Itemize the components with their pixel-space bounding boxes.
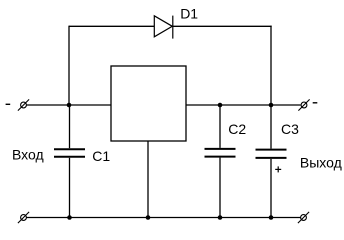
regulator box xyxy=(111,66,186,141)
wire: top rail right segment xyxy=(173,25,272,27)
wire: C1 bottom lead xyxy=(69,158,71,218)
junction: C3 / bottom rail xyxy=(269,215,274,220)
svg-text:C3: C3 xyxy=(281,121,299,137)
label plus of C3 xyxy=(275,166,281,172)
diode D1 xyxy=(154,16,173,39)
wire: right vertical from top rail to middle rail xyxy=(270,26,272,105)
wire: C3 bottom lead xyxy=(270,159,272,218)
svg-text:C2: C2 xyxy=(228,121,246,137)
terminal: input minus (left middle) xyxy=(18,99,29,110)
capacitor C1 xyxy=(54,149,85,157)
wire: regulator bottom pin xyxy=(147,141,149,218)
junction: left vertical / middle rail xyxy=(67,103,72,108)
wire: C1 top lead xyxy=(69,105,71,148)
label minus at output xyxy=(313,102,318,104)
wire: C2 top lead xyxy=(219,105,221,148)
capacitor C2 xyxy=(205,149,236,157)
terminal: input common (left bottom) xyxy=(18,212,29,223)
terminal: output minus (right middle) xyxy=(298,99,309,110)
wire: C2 bottom lead xyxy=(219,158,221,218)
junction: regulator pin / bottom rail xyxy=(146,215,151,220)
junction: right vertical / middle rail xyxy=(269,103,274,108)
svg-text:C1: C1 xyxy=(92,148,110,164)
junction: C2 / middle rail xyxy=(218,103,223,108)
terminal: output common (right bottom) xyxy=(298,212,309,223)
junction: C2 / bottom rail xyxy=(218,215,223,220)
wire: C3 top lead xyxy=(270,105,272,149)
wire: bottom rail xyxy=(26,217,300,219)
wire: top rail left segment xyxy=(69,25,154,27)
junction: C1 / bottom rail xyxy=(67,215,72,220)
label minus at input xyxy=(6,103,11,105)
wire: middle rail left (terminal to regulator) xyxy=(26,104,111,106)
svg-text:Выход: Выход xyxy=(300,154,342,170)
wire: middle rail right (regulator to terminal) xyxy=(186,104,301,106)
wire: left vertical from top rail to middle rail xyxy=(68,26,70,105)
svg-text:Вход: Вход xyxy=(12,146,44,162)
capacitor C3 (polarized) xyxy=(256,150,287,158)
svg-text:D1: D1 xyxy=(180,5,198,21)
